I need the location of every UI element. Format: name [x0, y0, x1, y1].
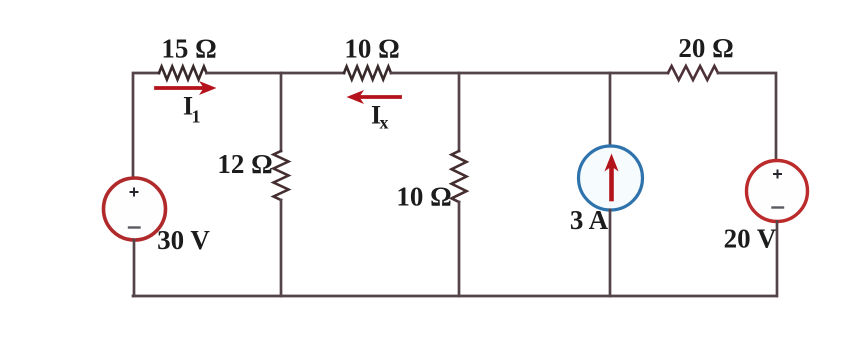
resistor R4 12 ohm (vertical zigzag) — [274, 151, 289, 200]
wire top between R1 and R2 — [207, 72, 345, 75]
wire branch node B upper (12 ohm branch) — [280, 73, 283, 151]
resistor R1 15 ohm (top left zigzag) — [159, 67, 207, 80]
svg-text:12 Ω: 12 Ω — [217, 149, 272, 179]
svg-text:20 V: 20 V — [724, 224, 777, 254]
resistor R3 20 ohm (top right zigzag) — [668, 66, 718, 80]
svg-text:10 Ω: 10 Ω — [396, 182, 451, 212]
resistor R5 10 ohm (vertical zigzag) — [452, 151, 467, 202]
svg-text:30 V: 30 V — [157, 225, 210, 255]
current source arrow (red, up) — [609, 167, 614, 199]
current arrow I1 (red, right) — [156, 86, 202, 90]
V1 plus mark — [131, 189, 138, 196]
wire left vertical lower — [133, 240, 136, 296]
V2 minus mark — [773, 206, 784, 208]
svg-text:x: x — [380, 113, 389, 133]
wire top-right corner + right vertical upper — [718, 73, 776, 161]
current arrow Ix (red, left) — [361, 95, 400, 99]
voltage source V1 30V circle — [104, 178, 166, 240]
V1 minus mark — [129, 226, 140, 228]
svg-text:3 A: 3 A — [570, 205, 609, 235]
svg-text:1: 1 — [192, 107, 201, 127]
svg-text:20 Ω: 20 Ω — [678, 33, 733, 63]
wire top-left vertical + corner segment — [133, 73, 159, 178]
wire branch node C upper (10 ohm branch) — [458, 73, 461, 151]
V2 plus mark — [774, 171, 781, 178]
wire right vertical lower — [776, 222, 779, 297]
svg-text:15 Ω: 15 Ω — [161, 34, 216, 64]
resistor R2 10 ohm (top middle zigzag) — [344, 67, 391, 80]
wire branch node B lower — [280, 200, 283, 296]
wire top between R2 and R3 — [391, 72, 668, 75]
wire bottom rail — [133, 295, 777, 298]
svg-text:10 Ω: 10 Ω — [344, 34, 399, 64]
wire branch node D upper (3A branch) — [609, 73, 612, 147]
wire branch node C lower — [458, 202, 461, 296]
current source I1 3A circle — [579, 146, 643, 210]
wire branch node D lower — [609, 210, 612, 296]
voltage source V2 20V circle — [747, 161, 808, 222]
